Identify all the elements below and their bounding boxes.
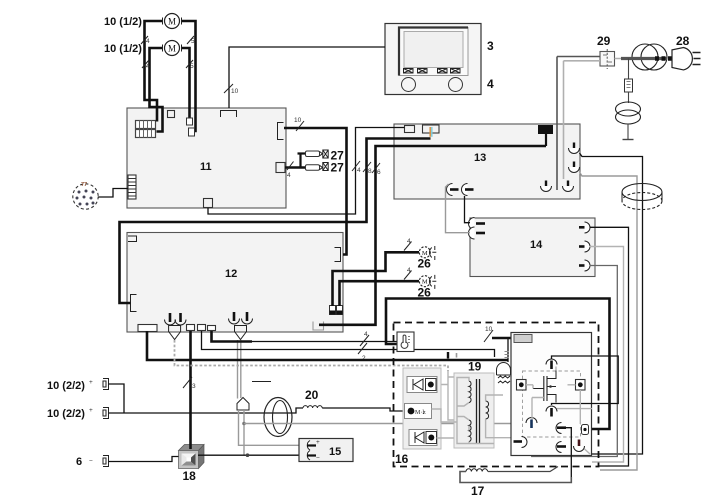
- svg-text:4: 4: [407, 238, 411, 245]
- panel button bowtie 1: [404, 69, 414, 74]
- wire unit12 to thermo (slash 4): [212, 331, 253, 342]
- glow sensor box 3: [409, 430, 437, 446]
- wire 10 from unit 11 to bus: [284, 128, 347, 255]
- connector on wires right pair upper: [187, 118, 193, 125]
- cable loop at plug: [632, 44, 667, 70]
- bottom lamp socket pair 2 of unit 12: [229, 312, 253, 324]
- wire motor26 upper: [333, 252, 420, 306]
- fuse on drop wire: [625, 79, 633, 92]
- svg-text:+: +: [89, 379, 93, 386]
- terminator tick: [623, 139, 634, 141]
- svg-text:10: 10: [485, 326, 493, 333]
- svg-text:10 (2/2): 10 (2/2): [47, 380, 85, 392]
- slash wire 10 igniter: [484, 330, 493, 342]
- wire unit14 r2 to right bundle: [590, 247, 624, 463]
- svg-text:4: 4: [357, 167, 361, 174]
- right lamp socket 2 of unit 14: [579, 241, 590, 252]
- right bracket connector of unit 12: [335, 248, 341, 262]
- top-left tab connector of unit 12: [128, 236, 137, 242]
- relay socket c-right 1: [556, 423, 566, 434]
- heater coil 17: [460, 467, 571, 483]
- svg-text:26: 26: [418, 257, 432, 271]
- control unit 14: [470, 218, 595, 277]
- thermo sensor box: [397, 332, 414, 352]
- drop wire from plug junction: [628, 59, 630, 80]
- connector on wires right pair lower: [189, 128, 195, 136]
- wire gray down into unit 13: [563, 61, 565, 179]
- wire panel to unit 11: [229, 47, 385, 108]
- slash wire 4 lower: [142, 60, 149, 68]
- thick supply wire loop to igniter connector: [386, 299, 610, 430]
- dotted gray shield wire: [175, 340, 449, 371]
- cable loop bottom: [252, 382, 292, 437]
- wire coil to terminator: [627, 124, 629, 139]
- panel button bowtie 3: [438, 69, 448, 74]
- cube connector 18: [179, 445, 205, 469]
- fuse 27 lower: [306, 163, 329, 171]
- wire igniter up to connector: [507, 338, 509, 362]
- right lamp socket 3 of unit 14: [579, 260, 590, 271]
- wire unit14 r3 to right bundle and relay cup: [532, 266, 618, 457]
- svg-text:M: M: [168, 44, 176, 54]
- svg-text:3: 3: [487, 39, 494, 53]
- wire unit13 b down-left long: [120, 139, 431, 304]
- junction tick dark on wire 2: [447, 352, 449, 359]
- bottom connector b of unit 12: [198, 325, 206, 331]
- svg-text:15: 15: [329, 446, 341, 458]
- svg-text:12: 12: [225, 268, 237, 280]
- top bracket connector of unit 11: [221, 111, 237, 118]
- thick wire unit12 to unit16: [147, 331, 508, 360]
- svg-text:10: 10: [294, 117, 302, 124]
- wire unit14 r1 to right bundle: [590, 227, 629, 466]
- junction dot on wire 15: [246, 453, 250, 457]
- bottom square connector of unit 11: [204, 199, 213, 208]
- svg-text:16: 16: [395, 452, 409, 466]
- panel knob left 4: [402, 78, 416, 92]
- bottom connector c of unit 12: [208, 326, 216, 331]
- gray wire unit13 r2 to right bundle: [580, 172, 638, 470]
- lamp socket r2 of unit 13: [569, 162, 580, 173]
- wire motor1 left: [145, 21, 163, 122]
- control unit 12: [127, 233, 343, 333]
- mains plug 28: [672, 48, 701, 70]
- svg-text:4: 4: [407, 267, 411, 274]
- bottom connector a of unit 12: [187, 325, 195, 331]
- fuse 27 upper: [306, 150, 329, 158]
- svg-text:6: 6: [377, 169, 381, 176]
- slash wire 4 bottom: [360, 335, 369, 346]
- svg-text:28: 28: [676, 34, 690, 48]
- svg-text:−: −: [316, 455, 320, 462]
- svg-text:6: 6: [76, 456, 82, 468]
- wire unit13 bottom-left cup2 to unit14: [465, 196, 471, 223]
- left lamp socket 1 of unit 14: [469, 218, 486, 230]
- inner dashed outline: [523, 371, 581, 437]
- svg-text:4: 4: [146, 63, 150, 70]
- gray wire pair unit12 to pentagon: [237, 340, 239, 399]
- internal terminal b of unit 12: [337, 306, 343, 315]
- svg-text:29: 29: [597, 34, 611, 48]
- wide bottom connector of unit 12: [138, 325, 157, 332]
- primary winding lower: [469, 420, 471, 442]
- corner bracket connector of unit 12: [313, 322, 324, 331]
- thick wire unit12 to cube 18: [189, 331, 192, 449]
- relay socket bottom right: [574, 440, 585, 452]
- small square connector on top of unit 11: [168, 111, 175, 118]
- panel button bowtie 2: [418, 69, 428, 74]
- slash wire 4 at unit 11: [287, 162, 294, 171]
- wire panel-feed gray to 29: [564, 60, 601, 62]
- big cable reel right: [622, 184, 662, 210]
- wire cube to unit 15: [198, 454, 299, 456]
- igniter electrode symbol: [497, 363, 511, 383]
- wire panel-feed dark to 29: [557, 56, 600, 58]
- wire unit13 r1 to right bundle: [580, 153, 643, 454]
- connector block X2 on unit 11: [136, 130, 156, 138]
- motor 26 upper: [419, 246, 436, 260]
- svg-text:11: 11: [200, 161, 212, 173]
- left hatched connector of unit 11: [128, 175, 136, 199]
- flame sensor box 2: [405, 404, 432, 419]
- gray wire pentagon down left leg: [239, 410, 300, 445]
- panel knob right 4: [449, 78, 463, 92]
- svg-text:+: +: [89, 407, 93, 414]
- junction tick gray on wire 2: [456, 353, 458, 358]
- lamp socket bottom-left 2 of unit 13: [462, 184, 474, 196]
- relay socket left low: [526, 418, 537, 428]
- junction dot on gray cross wire: [242, 422, 246, 426]
- wire socket to heater 17: [566, 428, 571, 483]
- relay box right solid: [511, 333, 592, 456]
- control unit 11: [127, 108, 286, 208]
- svg-text:10: 10: [231, 88, 239, 95]
- panel button bowtie 4: [451, 69, 461, 74]
- splice funnel 2 of unit 12: [235, 326, 247, 340]
- connector 29: [600, 49, 615, 69]
- transformer core: [477, 379, 480, 444]
- gray long wire to right box: [244, 423, 511, 425]
- socket 1 in unit 15: [307, 439, 320, 450]
- slash wire 5 lower: [186, 60, 193, 68]
- transformer frame lead wires: [457, 378, 494, 444]
- connector block X1 on unit 11: [136, 121, 156, 129]
- slash wire 4 upper: [141, 36, 148, 44]
- secondary winding: [486, 401, 489, 419]
- slash wire 5 upper: [187, 36, 194, 44]
- splice pentagon: [237, 398, 249, 411]
- wire unit13 c down-left to unit 12: [319, 146, 546, 325]
- slash wire 10 panel: [224, 84, 233, 93]
- bottom lamp socket pair 1 of unit 12: [165, 313, 187, 325]
- top connector b of unit 13: [423, 125, 440, 137]
- primary winding upper: [469, 381, 471, 403]
- svg-text:−: −: [89, 458, 93, 465]
- svg-text:5: 5: [190, 63, 194, 70]
- motor 26 lower: [419, 275, 436, 289]
- wire unit11 bottom to unit13 a: [208, 128, 405, 215]
- horn connector circle: [73, 182, 98, 209]
- wire motor2 left: [150, 48, 163, 132]
- wire unit12 b down long (slash 2): [202, 331, 495, 357]
- svg-text:4: 4: [146, 38, 150, 45]
- wire sensor3 to transformer: [437, 437, 458, 439]
- svg-text:17: 17: [471, 484, 485, 498]
- terminal square left: [517, 380, 527, 391]
- small connector with thick lead: [582, 425, 589, 435]
- slash wire 2 bottom: [358, 343, 367, 354]
- plug cable striped segment: [655, 56, 672, 61]
- small cable coil top right: [616, 102, 641, 124]
- wire motor26 lower: [340, 281, 420, 306]
- splice funnel 1 of unit 12: [169, 326, 181, 340]
- internal terminal a of unit 12: [330, 306, 336, 315]
- svg-text:10 (1/2): 10 (1/2): [104, 16, 142, 28]
- gray node wires to sensor b1 and transformer: [436, 370, 458, 420]
- svg-text:27: 27: [331, 161, 345, 175]
- wire 29 to plug: [615, 58, 633, 60]
- wire unit13 bottom-left cup1 to unit14 and transformer: [446, 184, 471, 233]
- wire motor1 right: [182, 21, 196, 131]
- b2 sensor wire to frame: [432, 409, 458, 422]
- right bracket connector (wire 10) of unit 11: [278, 123, 284, 140]
- svg-text:13: 13: [474, 152, 486, 164]
- mosfet symbol: [533, 371, 556, 403]
- slash wire 6 mid: [372, 163, 380, 173]
- motor M upper: [163, 14, 182, 29]
- svg-text:20: 20: [305, 388, 319, 402]
- svg-text:4: 4: [287, 172, 291, 179]
- input connector 10a: [103, 379, 109, 390]
- svg-text:+: +: [316, 439, 320, 446]
- lamp socket r1 of unit 13: [569, 143, 580, 154]
- svg-text:14: 14: [530, 239, 543, 251]
- wire fuse to coil: [628, 92, 630, 103]
- motor M lower: [163, 41, 182, 56]
- slash wire 10: [296, 121, 304, 131]
- display panel 3: [385, 24, 481, 95]
- wire input 10b main feed: [109, 408, 304, 413]
- right square connector (wire 4) of unit 11: [276, 163, 285, 173]
- relay socket c-left low: [514, 437, 528, 448]
- connector rect at right box top: [514, 335, 532, 343]
- wire secondary to igniter: [486, 395, 511, 438]
- svg-text:19: 19: [468, 360, 482, 374]
- socket 2 in unit 15: [307, 451, 320, 463]
- slash wire 3: [183, 377, 192, 388]
- right lamp socket 1 of unit 14: [579, 222, 590, 233]
- slash wire 8 mid: [363, 162, 371, 172]
- lamp socket bottom 3 of unit 13: [541, 181, 552, 192]
- lamp socket bottom-left 1 of unit 13: [447, 184, 459, 196]
- slash wire 4 motor26 upper: [404, 242, 412, 251]
- slash wire 4 motor26 lower: [404, 271, 412, 280]
- svg-text:M: M: [168, 17, 176, 27]
- wire inductor to unit 16: [322, 408, 404, 411]
- svg-text:4: 4: [364, 331, 368, 338]
- wire dark down into unit 13: [556, 57, 558, 191]
- slash wire 4 mid: [352, 161, 360, 171]
- svg-text:18: 18: [183, 469, 197, 483]
- thick wire stub at connector 10: [492, 337, 516, 340]
- relay socket c-right 2: [556, 442, 566, 453]
- inner gray wires of relay box: [526, 367, 592, 455]
- svg-text:10 (2/2): 10 (2/2): [47, 408, 85, 420]
- svg-text:3: 3: [192, 383, 196, 390]
- control unit 13: [394, 124, 580, 199]
- svg-text:M·ʫ: M·ʫ: [415, 410, 426, 416]
- svg-text:10 (1/2): 10 (1/2): [104, 43, 142, 55]
- unit 16 left sensor panel: [403, 368, 441, 449]
- left lamp socket 2 of unit 14: [469, 227, 486, 239]
- wire horn to unit 11: [98, 189, 128, 198]
- terminal square right: [576, 380, 586, 391]
- glow sensor box 1: [407, 377, 437, 393]
- relay socket mid: [546, 406, 557, 417]
- lamp socket bottom 4 of unit 13: [563, 181, 574, 192]
- svg-text:77: 77: [81, 182, 87, 188]
- relay socket top: [546, 359, 557, 369]
- relay loop wire right: [552, 356, 619, 405]
- svg-text:8: 8: [368, 168, 372, 175]
- wire input 10a to bus: [109, 384, 125, 413]
- dashed control box 16: [394, 323, 599, 467]
- transformer unit 19: [454, 360, 494, 449]
- top connector a of unit 13: [405, 126, 415, 133]
- svg-text:4: 4: [487, 77, 494, 91]
- wire motor2 right: [182, 48, 190, 121]
- svg-text:5: 5: [191, 38, 195, 45]
- input connector 6: [103, 456, 109, 467]
- wire unit11 pin4 to fuse junction: [285, 166, 306, 169]
- top connector c of unit 13: [539, 126, 553, 147]
- inductor 20: [303, 406, 322, 408]
- control unit 15: [299, 439, 353, 462]
- input connector 10b: [103, 408, 109, 419]
- gray wire pentagon down right leg: [243, 410, 245, 455]
- left bracket connector of unit 12: [131, 295, 137, 312]
- spring ticks on igniter lead: [505, 352, 509, 358]
- fuse junction riser: [298, 154, 306, 168]
- wire input 6 to cube: [109, 457, 179, 462]
